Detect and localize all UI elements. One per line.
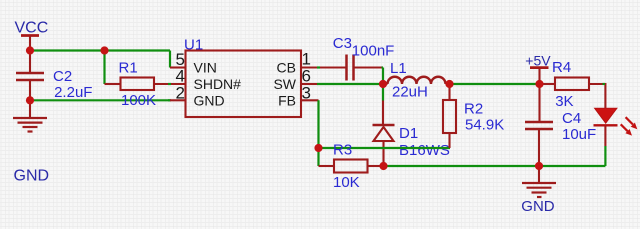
- wire down to pin 5: [169, 51, 171, 68]
- power port +5V: [525, 53, 551, 85]
- svg-text:22uH: 22uH: [392, 84, 428, 101]
- svg-text:C3: C3: [333, 35, 352, 52]
- svg-text:C4: C4: [562, 110, 581, 127]
- junction FB node: [314, 144, 322, 152]
- junction +5V/R4/C4: [535, 80, 543, 88]
- svg-text:54.9K: 54.9K: [465, 117, 504, 134]
- ground (left): [13, 100, 47, 131]
- wire FB horizontal to R2: [319, 147, 451, 149]
- capacitor C2: [16, 51, 92, 102]
- wire VCC rail top: [30, 49, 170, 51]
- wire GND to pin 2: [30, 99, 170, 101]
- capacitor C3: [333, 35, 395, 81]
- svg-text:3K: 3K: [555, 93, 573, 110]
- svg-text:B16WS: B16WS: [399, 142, 450, 159]
- junction GND/C4 bottom: [535, 162, 543, 170]
- pin 3 stub: [301, 99, 319, 101]
- junction C2 bottom/ground: [26, 96, 34, 104]
- LED: [594, 108, 638, 146]
- svg-text:SW: SW: [273, 76, 296, 92]
- svg-text:SHDN#: SHDN#: [194, 76, 242, 92]
- wire stub joint pin4: [168, 83, 171, 85]
- svg-text:R2: R2: [464, 100, 483, 117]
- svg-text:GND: GND: [194, 92, 225, 108]
- svg-text:2: 2: [176, 84, 185, 103]
- wire ground rail bottom: [384, 165, 606, 167]
- wire stub joint pin2: [168, 99, 171, 101]
- resistor R1: [105, 59, 186, 90]
- capacitor C4: [525, 84, 596, 166]
- diode D1: [373, 101, 450, 167]
- junction L1 right/R2: [445, 80, 453, 88]
- resistor R2: [443, 84, 504, 148]
- junction D1/R3: [379, 162, 387, 170]
- svg-text:CB: CB: [277, 60, 296, 76]
- svg-text:10uF: 10uF: [562, 126, 596, 143]
- svg-text:4: 4: [176, 66, 185, 85]
- svg-text:2.2uF: 2.2uF: [54, 84, 92, 101]
- wire SW node vertical: [382, 68, 384, 101]
- wire L1 to +5V node: [450, 83, 540, 85]
- svg-text:L1: L1: [390, 60, 407, 77]
- wire FB vertical: [317, 100, 319, 166]
- pin 1 stub + C3 left lead: [301, 66, 347, 68]
- svg-text:FB: FB: [278, 92, 296, 108]
- resistor R3: [319, 141, 384, 191]
- wire joint pin1: [317, 66, 320, 68]
- svg-text:100K: 100K: [121, 92, 156, 109]
- pin 2 stub: [170, 99, 186, 101]
- svg-text:+5V: +5V: [525, 53, 551, 69]
- junction VCC/C2 top: [26, 46, 34, 54]
- resistor R4: [540, 59, 606, 110]
- wire LED cathode drop: [604, 146, 606, 166]
- svg-text:GND: GND: [14, 168, 50, 185]
- svg-text:U1: U1: [184, 36, 203, 53]
- svg-text:6: 6: [302, 66, 311, 85]
- svg-text:VCC: VCC: [15, 20, 49, 37]
- wire pin6 to L1: [317, 83, 383, 85]
- svg-text:10K: 10K: [333, 174, 360, 191]
- svg-text:100nF: 100nF: [352, 42, 395, 59]
- svg-text:D1: D1: [399, 125, 418, 142]
- inductor L1: [383, 60, 450, 101]
- svg-text:C2: C2: [53, 68, 72, 85]
- junction SW/L1 left: [379, 80, 387, 88]
- svg-text:R4: R4: [552, 59, 571, 76]
- pin 6 stub: [301, 83, 317, 85]
- wire down to R1: [103, 51, 105, 85]
- svg-text:VIN: VIN: [194, 60, 217, 76]
- ground (right): [521, 166, 556, 215]
- junction R1 top: [100, 46, 108, 54]
- IC U1 (regulator): [184, 36, 301, 117]
- pin 5 stub: [170, 66, 186, 68]
- wire joint R4 corner: [603, 83, 606, 85]
- svg-text:R3: R3: [333, 141, 352, 158]
- wire C3 to SW node: [382, 66, 384, 68]
- svg-text:R1: R1: [119, 59, 138, 76]
- power port VCC: [15, 20, 49, 51]
- svg-text:GND: GND: [521, 198, 555, 215]
